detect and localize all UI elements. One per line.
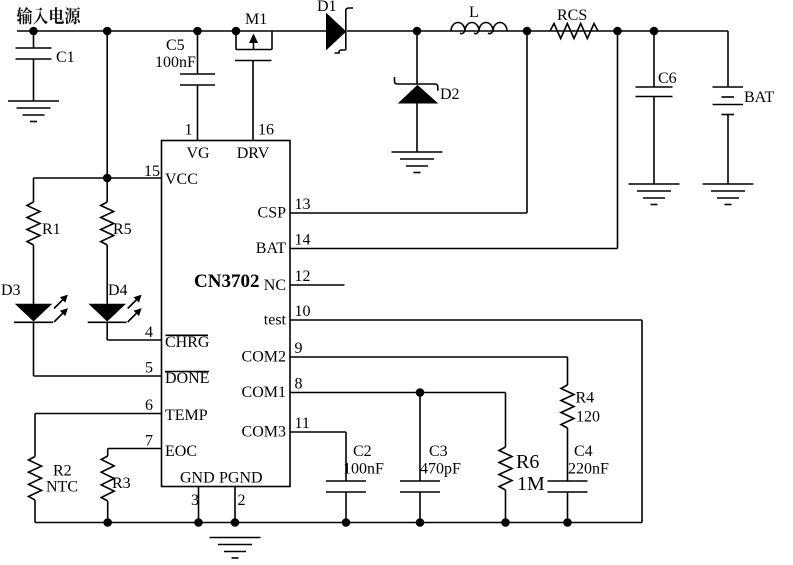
- capacitor C5: [197, 31, 199, 74]
- capacitor C6: [653, 31, 655, 87]
- battery BAT: [727, 31, 729, 87]
- svg-text:16: 16: [258, 122, 274, 139]
- wire ground bus: [35, 522, 642, 524]
- svg-text:R4: R4: [576, 390, 595, 407]
- capacitor C3: [419, 393, 421, 482]
- svg-text:D2: D2: [440, 86, 460, 103]
- svg-text:14: 14: [295, 232, 311, 249]
- svg-text:100nF: 100nF: [343, 461, 384, 478]
- node junction dot COM1/C3: [416, 388, 425, 397]
- diode D2 (Schottky freewheeling): [416, 31, 418, 85]
- wire COM1 pin 8: [290, 392, 506, 394]
- wire D3 cathode to DONE pin 5: [33, 322, 35, 376]
- node junction dot SW/D2: [413, 27, 422, 36]
- wire M1 gate to pin16 DRV: [252, 61, 254, 141]
- diode D1 (Schottky): [327, 14, 346, 49]
- svg-text:100nF: 100nF: [155, 54, 196, 71]
- inductor L: [451, 23, 507, 32]
- svg-text:C1: C1: [56, 49, 75, 66]
- node junction dot M1 source: [232, 27, 241, 36]
- wire test pin 10: [290, 319, 642, 321]
- svg-text:CSP: CSP: [258, 205, 287, 222]
- svg-text:12: 12: [295, 268, 311, 285]
- svg-text:4: 4: [145, 324, 153, 341]
- svg-text:D1: D1: [317, 0, 337, 15]
- M1 gate plate: [235, 60, 272, 62]
- ground below C6: [629, 183, 680, 185]
- LED D4: [106, 245, 108, 304]
- svg-text:R3: R3: [112, 475, 131, 492]
- svg-text:EOC: EOC: [165, 443, 197, 460]
- svg-text:NTC: NTC: [46, 479, 78, 496]
- svg-text:D4: D4: [108, 282, 128, 299]
- svg-text:COM1: COM1: [242, 384, 286, 401]
- wire PGND pin 2: [234, 487, 236, 523]
- svg-text:1M: 1M: [517, 473, 545, 495]
- wire VCC rail (pin 15): [34, 177, 162, 179]
- svg-text:470pF: 470pF: [420, 461, 461, 478]
- svg-text:5: 5: [145, 360, 153, 377]
- wire BAT pin 14: [290, 248, 618, 250]
- svg-text:C5: C5: [166, 37, 185, 54]
- resistor R4: [561, 385, 574, 428]
- svg-text:8: 8: [295, 376, 303, 393]
- svg-text:BAT: BAT: [256, 240, 286, 257]
- svg-text:D3: D3: [1, 282, 21, 299]
- resistor R2 (NTC): [34, 414, 36, 457]
- svg-text:C2: C2: [353, 443, 372, 460]
- node junction dot VCC/R5: [103, 174, 112, 183]
- capacitor C4: [567, 428, 569, 481]
- node junction dot RCS/BAT pin: [613, 27, 622, 36]
- node junction dot VCC branch: [103, 27, 112, 36]
- ground below BAT: [703, 183, 754, 185]
- svg-text:PGND: PGND: [219, 470, 263, 487]
- wire top rail left (VIN to D1 anode): [17, 30, 327, 32]
- wire NC pin 12 stub: [290, 284, 345, 286]
- svg-text:9: 9: [295, 340, 303, 357]
- node VIN: input supply label 输入电源: [17, 7, 80, 24]
- resistor R1: [33, 178, 35, 202]
- svg-text:R6: R6: [516, 451, 539, 473]
- wire D4 cathode to CHRG pin 4: [106, 322, 108, 340]
- wire TEMP pin 6: [35, 413, 162, 415]
- svg-text:VCC: VCC: [165, 171, 198, 188]
- wire EOC pin 7: [108, 448, 162, 450]
- node junction dot C6 branch: [650, 27, 659, 36]
- svg-text:CN3702: CN3702: [194, 271, 259, 292]
- svg-text:RCS: RCS: [557, 7, 587, 24]
- svg-text:VG: VG: [186, 145, 210, 162]
- svg-text:DRV: DRV: [237, 145, 270, 162]
- svg-text:C4: C4: [574, 443, 593, 460]
- wire CSP pin 13: [290, 212, 527, 214]
- wire C5 to pin1 VG: [197, 85, 199, 141]
- svg-text:CHRG: CHRG: [165, 334, 210, 351]
- svg-text:test: test: [264, 312, 287, 329]
- resistor R6: [505, 393, 507, 448]
- svg-text:COM3: COM3: [242, 424, 286, 441]
- LED D3: [33, 245, 35, 304]
- svg-text:6: 6: [145, 397, 153, 414]
- svg-text:220nF: 220nF: [568, 461, 609, 478]
- svg-text:TEMP: TEMP: [165, 407, 208, 424]
- svg-text:L: L: [469, 4, 479, 21]
- svg-text:11: 11: [295, 415, 310, 432]
- svg-text:13: 13: [295, 196, 311, 213]
- wire top rail right (D1 cathode to battery corner): [347, 30, 728, 32]
- svg-text:10: 10: [295, 303, 311, 320]
- resistor R5: [106, 178, 108, 202]
- svg-text:R1: R1: [42, 221, 61, 238]
- svg-text:1: 1: [185, 122, 193, 139]
- node junction dot C5 branch: [193, 27, 202, 36]
- node bus junction dots: [103, 518, 112, 527]
- capacitor C1: [33, 31, 35, 48]
- svg-text:BAT: BAT: [744, 89, 774, 106]
- node junction dot VIN/C1: [29, 27, 38, 36]
- transistor M1 (P-MOSFET): [235, 31, 237, 50]
- node junction dot L/CSP: [523, 27, 532, 36]
- svg-text:2: 2: [238, 492, 246, 509]
- svg-text:7: 7: [145, 433, 153, 450]
- svg-text:GND: GND: [180, 470, 215, 487]
- ground below PGND: [210, 537, 261, 539]
- svg-text:R2: R2: [53, 463, 72, 480]
- svg-text:DONE: DONE: [165, 370, 209, 387]
- svg-text:C3: C3: [429, 443, 448, 460]
- resistor RCS: [550, 24, 598, 39]
- wire COM3 pin 11: [290, 431, 346, 433]
- IC U1 CN3702 body: [162, 141, 291, 487]
- resistor R3: [107, 449, 109, 457]
- svg-text:120: 120: [576, 409, 600, 426]
- svg-text:COM2: COM2: [242, 349, 286, 366]
- wire GND pin 3: [198, 487, 200, 523]
- ground below C1: [8, 100, 59, 102]
- svg-text:NC: NC: [264, 277, 286, 294]
- capacitor C2: [345, 432, 347, 481]
- svg-text:M1: M1: [245, 11, 267, 28]
- ground below D2: [392, 151, 443, 153]
- svg-text:C6: C6: [658, 70, 677, 87]
- wire COM2 pin 9: [290, 356, 568, 358]
- svg-text:R5: R5: [113, 221, 132, 238]
